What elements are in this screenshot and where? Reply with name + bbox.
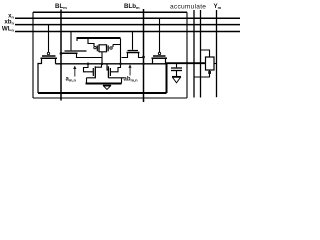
svg-text:WLn: WLn [2,26,15,33]
svg-text:BLbm: BLbm [124,3,140,10]
svg-text:am,n: am,n [66,77,77,83]
svg-text:BLm: BLm [55,3,67,10]
svg-text:accumulate: accumulate [170,4,206,11]
svg-text:abm,n: abm,n [124,77,139,83]
svg-text:Ym: Ym [214,3,222,10]
